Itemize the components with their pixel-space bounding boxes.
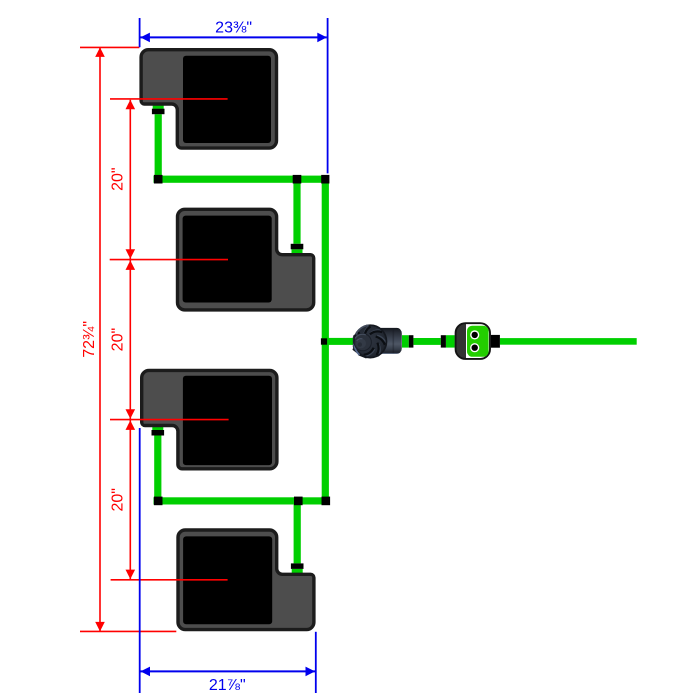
svg-text:23⅜": 23⅜" bbox=[215, 19, 252, 36]
svg-text:21⅞": 21⅞" bbox=[209, 677, 246, 694]
svg-text:20": 20" bbox=[110, 488, 127, 511]
svg-text:20": 20" bbox=[110, 167, 127, 190]
svg-text:20": 20" bbox=[110, 328, 127, 351]
svg-text:72¾": 72¾" bbox=[81, 321, 98, 358]
